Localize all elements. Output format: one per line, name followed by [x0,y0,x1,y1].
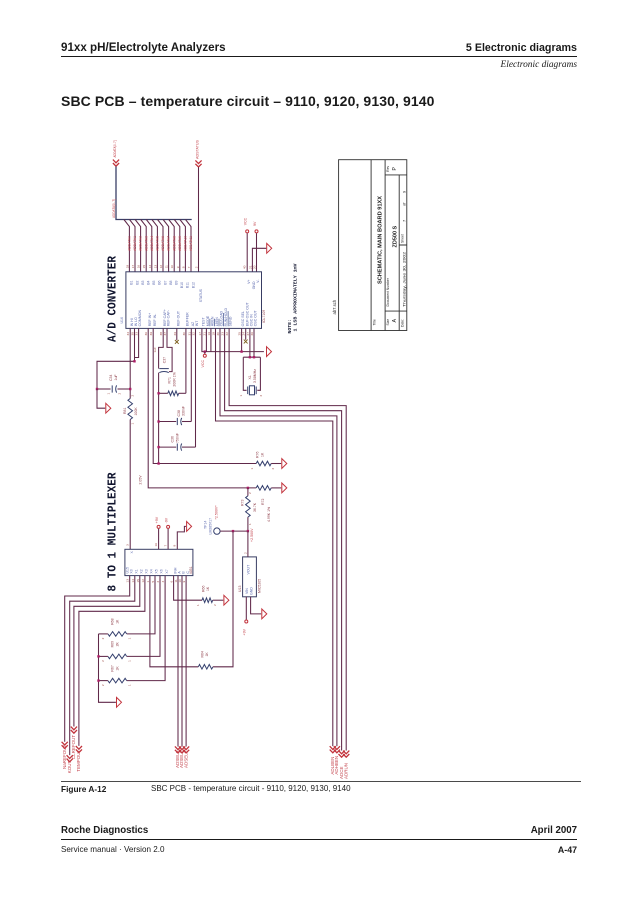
svg-text:9: 9 [176,266,180,268]
wire ADDATA9 branch [174,220,180,272]
wire U13 GND to port arrow [251,597,262,614]
wire left rail [158,373,160,464]
port arrow control rail [267,347,272,357]
wire ADCE [225,328,342,750]
svg-text:17: 17 [198,332,202,336]
svg-text:TEST: TEST [202,316,206,326]
svg-text:V-: V- [256,279,260,283]
svg-text:X: X [130,551,134,554]
wire X to R67 [127,576,165,681]
svg-text:2: 2 [101,660,105,662]
svg-text:REF OUT: REF OUT [176,310,180,326]
svg-text:*2.500V*: *2.500V* [214,505,218,520]
wire control rail [202,328,264,351]
svg-text:1K: 1K [115,666,119,671]
svg-text:ADDATA1: ADDATA1 [133,236,137,251]
node CLREFOUT port [71,727,77,734]
svg-text:10: 10 [170,265,174,269]
svg-text:Title: Title [372,319,376,325]
svg-text:8: 8 [173,545,177,547]
svg-text:C37: C37 [163,357,167,363]
header [61,41,226,54]
svg-text:7: 7 [402,219,407,222]
svg-text:1K: 1K [115,619,119,624]
svg-text:Date:: Date: [401,319,405,327]
svg-text:B11: B11 [186,282,190,288]
svg-text:2: 2 [213,604,217,606]
svg-text:ADDATA2: ADDATA2 [139,236,143,251]
wire U15 VEE to port arrow [177,526,186,549]
svg-text:ADRUN: ADRUN [343,763,348,779]
svg-text:REF CAP-: REF CAP- [167,309,171,326]
svg-text:12: 12 [141,579,145,583]
svg-text:1: 1 [128,637,132,639]
svg-text:13: 13 [153,265,157,269]
svg-text:1: 1 [130,423,134,425]
svg-text:1: 1 [146,581,150,583]
svg-text:X2: X2 [140,569,144,573]
svg-text:-9V: -9V [165,517,169,523]
svg-text:3.58MHz: 3.58MHz [253,369,257,383]
svg-text:R73: R73 [240,500,244,506]
svg-text:1: 1 [196,604,200,606]
resistor R67 1K [108,678,127,683]
svg-text:MIC5205: MIC5205 [257,579,261,593]
resistor R69 2K [108,654,127,659]
svg-text:33: 33 [135,332,139,336]
svg-text:1uF: 1uF [114,374,118,380]
svg-text:NOTE:: NOTE: [287,319,293,333]
svg-text:7: 7 [163,545,167,547]
svg-text:36.7K: 36.7K [253,502,257,512]
capacitor C34 1uF [97,388,111,390]
svg-text:ab7.sch: ab7.sch [332,299,337,314]
svg-text:COMMON: COMMON [138,309,142,326]
svg-text:2: 2 [259,395,263,397]
svg-text:X0: X0 [129,569,133,573]
svg-text:X1: X1 [135,569,139,573]
svg-text:4.99K 1%: 4.99K 1% [267,507,271,522]
svg-text:17: 17 [131,265,135,269]
wire U15 ADSEL2 [185,576,187,747]
wire X to R69 [127,576,160,657]
svg-text:36: 36 [144,332,148,336]
svg-text:B8: B8 [169,280,173,284]
svg-text:ADDATA5: ADDATA5 [156,236,160,251]
wire ADDATA0 branch [124,220,129,272]
wire U13 VOUT up [247,531,249,557]
svg-text:+9V: +9V [155,516,159,523]
svg-text:P: P [392,167,398,171]
wire ADDATA5 branch [152,220,158,272]
wire REF IN+ net to R72 [148,328,256,488]
svg-text:4: 4 [161,581,165,583]
wire ADDATA10 branch [180,220,186,272]
svg-text:20: 20 [216,332,220,336]
resistor R81 100K [128,399,133,420]
svg-text:5: 5 [151,581,155,583]
svg-text:ADDATA0: ADDATA0 [128,236,132,251]
wire TP14 node [220,530,248,532]
svg-text:B5: B5 [152,280,156,284]
wire ADHBEN [220,328,337,746]
svg-text:ADSEL2: ADSEL2 [183,750,188,768]
svg-text:Document Number: Document Number [386,277,390,306]
resistor R66 1K [202,598,213,603]
svg-text:VCC: VCC [201,360,205,368]
svg-text:X6: X6 [160,569,164,573]
svg-text:ADDATA3: ADDATA3 [144,236,148,251]
svg-text:C36: C36 [171,436,175,442]
svg-text:1K: 1K [260,452,264,457]
svg-text:HBEN: HBEN [211,316,215,326]
svg-text:18: 18 [212,332,216,336]
svg-text:VOUT: VOUT [247,564,251,575]
wire 9V to U16 V- [256,233,258,272]
svg-text:RUN/HOLD: RUN/HOLD [224,308,228,327]
svg-text:2: 2 [101,684,105,686]
svg-text:29: 29 [173,332,177,336]
resistor R72 4.99K 1% [256,486,271,491]
svg-text:MODE: MODE [206,315,210,326]
wire BUF OSC OUT stub [245,328,247,339]
svg-text:R81: R81 [123,408,127,414]
svg-text:ADDATA10: ADDATA10 [184,236,188,251]
svg-text:9: 9 [402,190,407,193]
svg-text:1: 1 [107,393,111,395]
capacitor C36 750nF [159,446,177,448]
svg-text:B9: B9 [175,280,179,284]
svg-text:ADDATA7: ADDATA7 [167,236,171,251]
port arrow AGND [267,243,272,253]
svg-text:ZD500 S: ZD500 S [393,225,399,247]
svg-text:1 LSB APPROXIMATELY 1mV: 1 LSB APPROXIMATELY 1mV [293,263,299,331]
svg-text:2.05V: 2.05V [139,475,143,485]
svg-text:200R 1%: 200R 1% [172,372,176,386]
svg-text:Size: Size [386,319,390,326]
svg-text:8 TO 1 MULTIPLEXER: 8 TO 1 MULTIPLEXER [107,472,120,591]
svg-text:2: 2 [118,393,122,395]
svg-text:VIN: VIN [245,588,249,594]
wire INH to R66 [174,576,202,601]
svg-text:B2: B2 [135,280,139,284]
wire U15 CLREFOUT [74,576,140,727]
svg-text:GND: GND [249,587,253,595]
regulator U13 MIC5205 [243,557,257,597]
svg-text:3: 3 [126,544,130,546]
wire REF OUT stub [176,328,178,340]
wire ADLBEN [216,328,333,746]
svg-text:26: 26 [250,332,254,336]
wire R81 to U15 X pin [129,420,131,550]
svg-text:A/D CONVERTER: A/D CONVERTER [107,256,120,342]
wire ADDATA4 branch [146,220,152,272]
svg-text:B3: B3 [141,280,145,284]
svg-text:B12: B12 [191,282,195,288]
svg-text:18: 18 [125,265,129,269]
svg-text:15: 15 [136,579,140,583]
svg-text:14: 14 [148,265,152,269]
svg-text:1: 1 [128,660,132,662]
wire REF CAP loop [159,328,164,364]
svg-text:9: 9 [182,581,186,583]
svg-text:9V: 9V [253,221,257,226]
svg-text:330nF: 330nF [182,406,186,416]
figure caption [61,780,581,783]
wire ADDATA7 branch [163,220,169,272]
svg-text:2: 2 [248,492,252,494]
svg-text:R66: R66 [201,586,205,592]
svg-text:100K: 100K [134,407,138,416]
svg-text:R64: R64 [200,651,204,657]
svg-text:1K: 1K [206,586,210,591]
node KOUT port [67,755,73,762]
svg-text:B6: B6 [158,280,162,284]
svg-text:B4: B4 [147,280,151,284]
wire C38 right to AZ [190,328,192,421]
svg-text:INT: INT [195,320,199,327]
svg-text:BUFFER: BUFFER [186,312,190,326]
wire C36 right to INT [195,328,197,447]
svg-text:1K: 1K [205,652,209,657]
svg-text:REF IN+: REF IN+ [148,313,152,327]
svg-text:750nF: 750nF [175,433,179,443]
resistor R76 1K [256,461,271,466]
node ADSEL1 port [179,746,185,753]
title block [339,160,407,331]
svg-text:20: 20 [252,265,256,269]
power VCC port at TEST [204,352,206,354]
svg-text:13: 13 [126,579,130,583]
capacitor C38 330nF [159,421,177,423]
node ADLBEN port [330,746,336,753]
wire VCC to U16 V+ [246,233,248,272]
svg-text:TEMPOUT: TEMPOUT [76,750,81,772]
svg-text:B7: B7 [163,280,167,284]
wire OSC loop [249,328,251,357]
port arrow R72 [282,483,287,493]
svg-text:1: 1 [239,395,243,397]
svg-text:SEND: SEND [229,316,233,326]
svg-text:12: 12 [159,265,163,269]
svg-text:2: 2 [194,266,198,268]
node ADSEL2 port [183,746,189,753]
port arrow R76 [282,459,287,469]
wire R71 right to BUFFER [185,328,187,393]
wire X4 to R64 [150,576,198,667]
svg-text:16: 16 [154,543,158,547]
node NaREFOUT port [62,742,68,749]
svg-text:ICL7109: ICL7109 [262,310,266,323]
svg-text:19: 19 [207,332,211,336]
svg-text:V+: V+ [247,280,251,284]
wire ADDATA1 branch [130,220,136,272]
crystal X1 3.58MHz [248,387,257,395]
svg-text:C34: C34 [109,375,113,381]
svg-text:23: 23 [221,332,225,336]
svg-text:2: 2 [156,581,160,583]
svg-text:C38: C38 [177,410,181,416]
svg-text:1: 1 [128,684,132,686]
svg-text:R72: R72 [261,499,265,505]
wire ADRUN [229,328,346,750]
svg-text:ADDATA[0..7]: ADDATA[0..7] [112,199,116,218]
svg-text:39: 39 [149,332,153,336]
svg-text:2: 2 [271,468,275,470]
wire X to R68 [127,576,155,634]
svg-text:X7: X7 [165,569,169,573]
svg-text:32: 32 [192,332,196,336]
wire resistor common rail to port arrow [99,634,116,702]
svg-text:ADDATA8: ADDATA8 [172,236,176,251]
svg-text:Thursday, June 30, 2002: Thursday, June 30, 2002 [403,252,407,307]
node ADCE port [339,751,345,758]
svg-text:ADDATA4: ADDATA4 [150,236,154,251]
wire REF IN- net to R76 [153,328,256,463]
resistor R64 1K [198,665,213,670]
svg-text:6: 6 [170,581,174,583]
capacitor C37 [159,368,169,370]
wire ADDATA3 branch [141,220,147,272]
svg-text:Sheet: Sheet [401,234,405,243]
svg-text:30: 30 [182,332,186,336]
svg-text:X5: X5 [155,569,159,573]
svg-text:1: 1 [250,468,254,470]
wire U15 KOUT [70,576,135,756]
resistor R68 1K [108,632,127,637]
test point TP14 [214,528,220,534]
svg-text:CE/LOAD: CE/LOAD [220,310,224,326]
node ADHBEN port [334,746,340,753]
svg-text:TP14: TP14 [204,521,208,529]
op-amp U16 ICL7109 A/D converter body [126,272,262,329]
svg-text:of: of [402,202,407,206]
multiplexer U15 4051 body [125,549,193,575]
svg-text:X4: X4 [150,569,154,573]
wire U13 VIN to +9V [245,597,247,620]
svg-text:22: 22 [225,332,229,336]
svg-text:ADDATA6: ADDATA6 [161,236,165,251]
svg-text:14: 14 [131,579,135,583]
wire U15 ADSEL1 [181,576,183,747]
svg-text:U16: U16 [120,317,124,323]
svg-text:2K: 2K [115,641,119,646]
svg-text:OSC OUT: OSC OUT [254,309,258,326]
wire U15 ADSEL0 [177,576,179,747]
svg-text:STATUS: STATUS [199,288,203,302]
svg-text:2: 2 [243,552,247,554]
resistor R73 36.7K [247,488,249,496]
svg-text:7: 7 [187,266,191,268]
wire IN LO / COMMON to C34 [134,328,136,361]
svg-text:B1: B1 [130,280,134,284]
svg-text:15: 15 [142,265,146,269]
node TEMPOUT port [76,746,82,753]
svg-text:11: 11 [165,265,169,268]
svg-text:2: 2 [101,637,105,639]
svg-text:X3: X3 [145,569,149,573]
wire ADDATA2 branch [135,220,141,272]
svg-text:LM285#17: LM285#17 [209,518,213,535]
svg-text:SCHEMATIC, MAIN BOARD 91XX: SCHEMATIC, MAIN BOARD 91XX [378,196,384,284]
svg-text:16: 16 [137,265,141,269]
svg-text:U13: U13 [238,586,242,592]
wire bus ADDATA [116,167,192,220]
svg-text:21: 21 [202,332,206,336]
wire ADDATA6 branch [158,220,164,272]
svg-text:LBEN: LBEN [215,317,219,327]
svg-text:KOUT: KOUT [67,760,72,773]
wire U15 TEMPOUT [79,576,145,746]
svg-text:A: A [392,319,398,323]
wire U16 GND to port arrow [252,248,266,271]
svg-text:INH: INH [173,567,177,574]
svg-text:X1: X1 [248,375,252,379]
svg-text:VCC: VCC [244,217,248,225]
wire IN HI net (2.05V) [129,328,131,398]
svg-text:R68: R68 [111,618,115,624]
svg-text:REF IN-: REF IN- [153,313,157,326]
resistor R71 200R 1% [159,392,168,394]
svg-text:ADDATA[0..7]: ADDATA[0..7] [113,141,117,158]
footer [61,825,148,836]
node ADSEL0 port [175,746,181,753]
svg-text:R69: R69 [111,641,115,647]
svg-text:1: 1 [248,523,252,525]
svg-text:ADSTATUS: ADSTATUS [195,139,199,159]
wire U15 NaREFOUT [65,576,130,742]
svg-text:+2.500V: +2.500V [250,528,254,542]
svg-text:ADDATA11: ADDATA11 [189,236,193,251]
svg-text:B10: B10 [180,282,184,288]
svg-text:ADDATA9: ADDATA9 [178,236,182,251]
node ADRUN port [343,751,349,758]
svg-text:8: 8 [181,266,185,268]
wire ADDATA11 branch [186,220,192,272]
svg-text:R76: R76 [255,452,259,458]
wire ADSTATUS [198,167,200,272]
svg-text:2: 2 [130,395,134,397]
svg-text:R67: R67 [111,665,115,671]
svg-text:40: 40 [243,265,247,269]
svg-text:R71: R71 [167,377,171,383]
svg-text:+9V: +9V [243,628,247,635]
svg-text:Rev: Rev [386,165,390,171]
wire C34 left to port arrow [97,389,105,408]
wire ADDATA8 branch [169,220,175,272]
